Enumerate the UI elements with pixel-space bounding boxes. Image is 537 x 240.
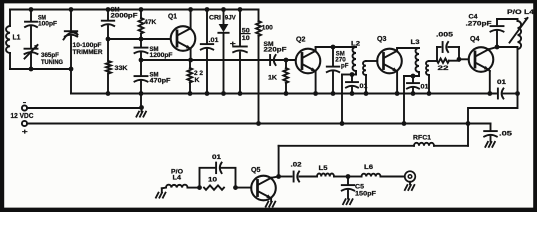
node top rail 50/10 [238,7,243,12]
svg-text:Q1: Q1 [168,14,177,21]
wire Q3 collector [397,48,419,51]
wire 22 right node [458,47,460,61]
capacitor 50/10 electrolytic [230,10,250,94]
transistor Q3 [377,36,402,73]
capacitor C5 150pF [342,177,376,199]
node tank bottom 365pF [29,67,34,72]
inductor L1 [6,10,21,70]
svg-text:L5: L5 [319,165,328,172]
svg-text:K: K [195,77,200,84]
inductor RFC1 [279,124,468,146]
inductor L2 link [363,61,377,94]
node ground rail .01 L2 [350,91,355,96]
svg-text:pF: pF [341,63,349,70]
svg-text:1K: 1K [268,75,277,82]
capacitor SM 220pF [264,41,287,65]
connector RF output jack [405,171,416,184]
ground output jack [405,185,415,190]
wire Q2 emitter [315,71,317,93]
node ground tie [139,105,144,110]
label 12 VDC [11,113,34,120]
node Q5 collector [276,174,281,179]
wire tank bottom [10,68,71,70]
capacitor SM 270pF [327,47,349,94]
terminal minus [22,100,27,111]
node ground rail link L3 [427,91,432,96]
svg-text:Q2: Q2 [296,37,306,44]
svg-text:9JV: 9JV [225,14,237,21]
node emitter line 1K [284,58,289,63]
node emitter line Q1 [188,58,193,63]
node top rail .01 [205,7,210,12]
svg-text:10: 10 [242,35,250,42]
svg-text:12 VDC: 12 VDC [11,113,34,120]
resistor 1K [268,60,288,94]
svg-text:10: 10 [208,177,217,184]
node top rail 100pF [29,7,34,12]
wire Q5 emitter lead [270,198,272,201]
svg-text:L4: L4 [173,175,182,182]
wire L4 down [517,49,519,94]
terminal plus [22,121,29,136]
node ground rail 470pF [139,91,144,96]
wire Q4 collector [489,47,497,49]
wire tank to ground rail [70,69,72,94]
capacitor SM 2000pF [102,7,138,40]
svg-text:L6: L6 [364,164,373,171]
wire Q4 emitter [489,70,490,94]
node Q4 base [457,57,462,62]
node C5 [346,174,351,179]
capacitor .02 [279,162,317,182]
node +12V rail corner [466,121,471,126]
node ground rail 1K [284,91,289,96]
node +12V rail L2 feed [340,121,345,126]
node base 2000pF [106,37,111,42]
node base 47K [139,37,144,42]
wire collector tap [497,46,518,48]
svg-text:L2: L2 [351,41,360,48]
node +12V rail 100 ohm [256,121,261,126]
capacitor .005 [436,32,459,62]
ground .05 [485,142,495,147]
node ground rail 270pF [331,91,336,96]
node ground rail link L2 [364,91,369,96]
transistor Q4 [469,36,494,72]
svg-text:CRI: CRI [209,14,221,21]
wire L2 feed hook [342,75,356,124]
inductor L6 [348,164,405,177]
wire Q1 collector [190,10,192,29]
svg-text:47K: 47K [144,19,156,26]
transistor Q2 [296,37,321,74]
svg-text:.005: .005 [436,32,453,39]
node L2 hook .01 [350,72,355,77]
svg-text:470pF: 470pF [150,77,171,84]
capacitor C4 270pF [466,13,504,47]
inductor L5 [317,165,348,177]
svg-text:C4: C4 [469,13,478,20]
node ground rail Q3 emitter [395,91,400,96]
svg-text:P/O L4: P/O L4 [507,9,534,16]
svg-text:01: 01 [421,84,429,91]
node top rail 47K [139,7,144,12]
capacitor .01 L3 bypass [407,76,429,94]
node collector line 270pF [331,45,336,50]
svg-text:365pF: 365pF [41,52,59,59]
svg-text:Q5: Q5 [251,167,261,174]
capacitor .01 L2 bypass [346,75,368,94]
resistor 100 [256,10,273,124]
zener CR1 9.1V [209,10,236,94]
ground input L4 [156,188,166,198]
svg-text:Q4: Q4 [470,36,480,43]
wire emitter line [141,59,296,61]
svg-text:L1: L1 [13,35,21,42]
node ground rail Q2 emitter [313,91,318,96]
node ground rail 33K [106,91,111,96]
capacitor 10-100pF trimmer [64,10,103,70]
wire +12V rail [27,123,468,125]
inductor L3 [411,39,420,76]
svg-text:1200pF: 1200pF [150,52,173,59]
node L4 bottom [515,91,520,96]
node Q4 collector [495,45,500,50]
capacitor SM 100pF [25,10,57,48]
svg-text:+: + [230,41,236,48]
wire negative rail [27,107,142,109]
svg-text:100: 100 [262,25,273,32]
inductor P/O L4 input [166,168,200,187]
svg-text:10-100pF: 10-100pF [73,42,102,49]
wire to Q5 base [236,187,252,189]
wire Q5 collector riser [278,146,280,177]
node ground rail .01 [205,91,210,96]
resistor 47K [139,10,157,40]
node 10 ohm right [233,185,238,190]
node ground rail Q4 emitter [487,91,492,96]
capacitor .01 bypass [201,10,219,94]
svg-text:.01: .01 [209,37,219,44]
node ground rail 50/10 [238,91,243,96]
resistor 33K [106,39,128,94]
inductor P/O L4 output [507,9,534,49]
node tank bottom trimmer [69,67,74,72]
node top rail trimmer [69,7,74,12]
capacitor 365pF tuning [25,44,64,69]
inductor L3 link [426,61,437,94]
capacitor .01 bridge [200,154,236,188]
svg-text:TRIMMER: TRIMMER [73,49,103,56]
wire base node [108,38,171,40]
ground C5 [343,199,353,204]
node top rail CR1 [221,7,226,12]
capacitor .05 [468,124,512,142]
node +12V rail L3 feed [402,121,407,126]
node top rail 2000pF [106,7,111,12]
svg-text:01: 01 [497,79,506,86]
ground Q5 emitter [266,202,276,207]
wire +12V step [468,94,518,124]
svg-text:150pF: 150pF [355,191,376,198]
wire Q2 collector [316,47,356,51]
svg-text:L3: L3 [411,39,420,46]
svg-text:33K: 33K [115,65,128,72]
wire top 9.1V rail [10,9,259,11]
node ground rail .01 L3 [411,91,416,96]
svg-text:2000pF: 2000pF [111,12,138,19]
wire ground rail [71,93,496,95]
wire Q1 emitter [190,49,192,61]
resistor 2.2K [187,60,203,94]
capacitor .01 series [497,79,506,99]
wire Q3 emitter [396,71,398,93]
node 10 ohm left [197,185,202,190]
svg-text:01: 01 [212,154,221,161]
wire ground tie [140,94,142,108]
capacitor SM 1200pF [135,39,173,60]
node top rail Q1 collector [188,7,193,12]
svg-text:220pF: 220pF [264,47,287,54]
node ground rail 2.2K [188,91,193,96]
svg-text:TUNING: TUNING [41,59,63,66]
svg-text:.270pF: .270pF [466,20,492,27]
node emitter line 1200pF [139,58,144,63]
svg-text:C5: C5 [355,184,364,191]
svg-text:.02: .02 [291,162,302,169]
transistor Q1 [168,14,195,51]
wire C4 to L4 top [497,18,518,20]
ground chassis main [136,108,146,117]
transistor Q5 [251,167,276,200]
svg-text:.05: .05 [499,131,512,138]
svg-text:RFC1: RFC1 [413,134,431,141]
svg-text:+: + [22,127,29,136]
inductor L2 [351,41,360,75]
node ground rail CR1 [221,91,226,96]
wire Q5 collector lead [271,177,279,178]
resistor 22 [437,59,459,72]
svg-text:22: 22 [438,65,449,72]
wire to Q4 base [459,58,469,60]
svg-text:Q3: Q3 [377,36,387,43]
node L3 hook .01 [411,74,416,79]
svg-text:100pF: 100pF [38,20,57,27]
wire ground rail right end [504,93,518,95]
wire L3 feed hook [404,76,419,124]
resistor 10 [204,177,224,190]
capacitor SM 470pF [135,60,171,94]
